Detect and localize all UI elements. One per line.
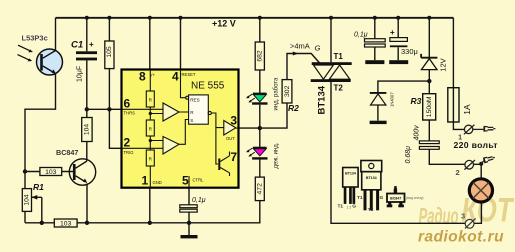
svg-text:+12 V: +12 V xyxy=(212,19,236,29)
internal reset line xyxy=(181,70,186,98)
svg-text:TRIG: TRIG xyxy=(124,150,134,155)
svg-text:682: 682 xyxy=(257,50,264,62)
internal pin2 line xyxy=(122,147,164,149)
svg-text:radiokot.ru: radiokot.ru xyxy=(418,229,504,246)
output buffer xyxy=(224,121,236,136)
svg-text:THRS: THRS xyxy=(124,110,136,115)
svg-text:104: 104 xyxy=(24,194,31,206)
resistor 682 xyxy=(255,42,264,70)
svg-text:3: 3 xyxy=(461,211,465,220)
wire triac T1 xyxy=(330,18,332,62)
comparator outputs xyxy=(179,112,189,144)
discharge transistor xyxy=(216,128,218,164)
wire right drop to fuse xyxy=(452,18,454,88)
package SOT23 BC847 xyxy=(387,187,405,207)
resistor 103 bottom xyxy=(54,219,77,228)
svg-text:Радио: Радио xyxy=(419,203,459,229)
wire C1 bottom to node xyxy=(86,60,88,109)
internal pin6 line xyxy=(122,108,164,110)
terminal 1 xyxy=(464,125,496,135)
pin5 internal stub xyxy=(188,176,190,188)
svg-text:CTRL: CTRL xyxy=(193,178,205,183)
svg-text:BT134: BT134 xyxy=(345,172,356,176)
svg-text:R1: R1 xyxy=(33,182,44,192)
svg-text:инд. работа: инд. работа xyxy=(273,77,279,110)
svg-text:BT134: BT134 xyxy=(366,176,377,180)
svg-text:RES: RES xyxy=(190,98,199,103)
capacitor 0.68u 400v xyxy=(405,125,439,164)
wire lamp bottom to terminal 3 xyxy=(474,203,481,223)
LED green work xyxy=(246,77,279,110)
wire 0.1u cap branch xyxy=(374,18,376,60)
wire bottom left rail xyxy=(25,201,260,223)
wire pin4 stub xyxy=(180,18,182,70)
svg-text:BT134: BT134 xyxy=(317,85,328,114)
wire magenta led to 472 xyxy=(259,160,261,178)
wire pin1 stub xyxy=(149,188,151,223)
RS flip-flop xyxy=(189,95,209,124)
svg-text:103: 103 xyxy=(45,169,57,176)
svg-text:4: 4 xyxy=(172,70,179,84)
svg-text:L53P3c: L53P3c xyxy=(22,33,48,42)
resistor 104 xyxy=(82,118,92,142)
svg-text:+: + xyxy=(390,28,395,37)
svg-text:G: G xyxy=(315,43,321,52)
wire 105 branch xyxy=(109,18,121,149)
svg-text:R3: R3 xyxy=(411,96,422,106)
IC NE555 box xyxy=(122,70,239,188)
phototransistor L53P3c xyxy=(18,33,63,75)
svg-text:5: 5 xyxy=(182,174,189,188)
wire BC847 emitter down xyxy=(86,183,88,222)
resistor 472 xyxy=(255,177,264,201)
svg-text:103: 103 xyxy=(60,221,72,228)
svg-text:G: G xyxy=(380,195,384,201)
wire phototransistor collector xyxy=(55,18,57,50)
IC internals xyxy=(122,70,239,188)
svg-text:0.68μ: 0.68μ xyxy=(405,146,412,164)
svg-text:150оМ: 150оМ xyxy=(426,96,433,117)
svg-text:400v: 400v xyxy=(413,125,420,141)
wire phototransistor emitter to left rail xyxy=(25,74,56,223)
triac BT134 xyxy=(311,52,352,115)
wire pin6 node line xyxy=(87,108,122,110)
svg-text:1 2: 1 2 xyxy=(347,206,352,210)
potentiometer R1 104 xyxy=(22,182,44,211)
svg-text:1: 1 xyxy=(142,174,149,188)
svg-text:220 вольт: 220 вольт xyxy=(454,140,499,150)
wire zener branch xyxy=(428,18,430,94)
fuse 1A xyxy=(448,88,472,122)
watermark РадиоКОТ xyxy=(419,192,515,230)
svg-text:T2: T2 xyxy=(334,84,344,93)
wire C1 branch from rail xyxy=(86,18,88,52)
internal divider chain xyxy=(149,70,151,188)
svg-text:T1: T1 xyxy=(334,52,344,61)
svg-text:105: 105 xyxy=(106,46,113,58)
comparator 2 xyxy=(163,137,179,155)
resistor R2 302 xyxy=(282,80,299,114)
wire terminal2 to lamp node xyxy=(474,164,482,178)
svg-text:8: 8 xyxy=(139,70,146,84)
svg-text:302: 302 xyxy=(284,85,291,97)
wire 0.68u cap to terminal 2 xyxy=(429,149,465,164)
capacitor 0.1u at pin5 xyxy=(180,197,206,212)
package TO126 BT134 xyxy=(343,168,358,204)
wire 682 branch xyxy=(259,18,261,93)
svg-text:0,1μ: 0,1μ xyxy=(354,32,368,39)
wire pin3 to magenta led xyxy=(259,128,261,147)
capacitor 0.1u filter xyxy=(354,32,385,65)
svg-text:0,1μ: 0,1μ xyxy=(192,197,206,204)
wire 1N4007 to ground xyxy=(377,105,379,121)
svg-text:G: G xyxy=(352,204,356,210)
svg-text:>4mA: >4mA xyxy=(290,41,310,50)
svg-text:1N4007: 1N4007 xyxy=(390,92,395,107)
wire fuse through and to terminal 1 xyxy=(453,88,464,130)
resistor 105 xyxy=(105,41,114,69)
svg-text:T1: T1 xyxy=(338,204,344,210)
wire node to 104 and BC847 collector xyxy=(86,109,88,161)
svg-text:2: 2 xyxy=(456,168,460,177)
svg-text:NE 555: NE 555 xyxy=(191,81,225,92)
svg-text:T1: T1 xyxy=(357,195,363,201)
svg-text:2: 2 xyxy=(124,136,131,150)
wire +12V top rail xyxy=(56,17,454,19)
comparator 1 xyxy=(163,103,179,121)
wire base 103 line xyxy=(25,171,74,173)
svg-text:6: 6 xyxy=(124,97,131,111)
svg-text:330μ: 330μ xyxy=(401,47,418,56)
capacitor C1 10uF xyxy=(71,39,97,82)
wire green led to pin3 line xyxy=(259,105,261,128)
gate arrow >4mA xyxy=(293,52,299,56)
svg-text:+: + xyxy=(89,40,94,49)
wire pin3 line xyxy=(239,103,288,128)
svg-text:7: 7 xyxy=(230,150,237,164)
svg-text:10μF: 10μF xyxy=(77,66,84,82)
terminal 2 xyxy=(464,155,495,170)
LED magenta standby xyxy=(246,142,279,168)
svg-text:T2: T2 xyxy=(368,207,374,213)
resistor 103 base xyxy=(40,168,62,177)
svg-text:104: 104 xyxy=(84,124,91,136)
resistor R3 150oM xyxy=(411,94,436,120)
svg-text:12V: 12V xyxy=(439,58,448,71)
svg-text:R2: R2 xyxy=(288,103,299,113)
capacitor 330u xyxy=(389,28,418,64)
svg-text:(вид снизу): (вид снизу) xyxy=(406,196,424,200)
wire triac T2 to terminal 3 xyxy=(331,82,465,223)
wire pin8 stub xyxy=(149,18,151,70)
wire ground stub pin5 xyxy=(188,223,190,235)
ground symbol pin5 xyxy=(181,235,198,238)
diode 1N4007 xyxy=(370,92,395,124)
wire rectified node line xyxy=(378,81,429,93)
svg-text:RESET: RESET xyxy=(182,72,196,77)
svg-text:C1: C1 xyxy=(71,39,83,50)
svg-text:1A: 1A xyxy=(462,104,472,115)
wire R2 to triac gate xyxy=(287,54,320,80)
svg-text:S: S xyxy=(190,118,193,123)
svg-text:BC847: BC847 xyxy=(390,197,401,201)
svg-text:OUT: OUT xyxy=(226,136,235,141)
wire R3 to 0.68u cap xyxy=(428,120,430,141)
svg-text:GND: GND xyxy=(153,180,162,185)
wire pin5 stub xyxy=(188,188,190,223)
lamp xyxy=(469,179,492,202)
internal taps xyxy=(150,114,163,141)
svg-text:BC847: BC847 xyxy=(56,148,78,157)
transistor BC847 xyxy=(56,148,96,185)
zener 12V xyxy=(421,54,448,72)
wire R1 wiper xyxy=(31,197,42,223)
package TO220 BT134 xyxy=(361,161,382,210)
svg-text:472: 472 xyxy=(257,183,264,195)
wire 330u cap branch xyxy=(397,18,399,60)
terminal 3 xyxy=(465,218,476,228)
svg-text:деж. инд.: деж. инд. xyxy=(273,142,279,168)
